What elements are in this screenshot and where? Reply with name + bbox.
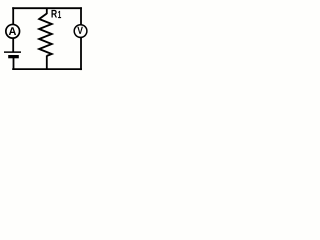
wire bottom (node between battery -, R1 bottom, voltmeter bottom)	[12, 68, 82, 70]
voltmeter V	[74, 25, 87, 38]
ammeter A	[6, 24, 20, 38]
wire top (node between ammeter, R1 top, voltmeter top)	[12, 7, 82, 9]
label R1	[51, 10, 57, 18]
background	[0, 0, 94, 82]
resistor R1 top lead	[46, 8, 48, 15]
wire right bottom segment (voltmeter to bottom wire)	[80, 38, 82, 71]
wire segment battery to bottom wire	[13, 58, 15, 70]
battery positive plate (long)	[4, 51, 21, 53]
resistor R1 bottom lead	[46, 56, 48, 71]
wire segment ammeter to battery	[12, 38, 14, 52]
wire right top segment (top wire to voltmeter)	[80, 7, 82, 24]
resistor R1 zigzag body	[39, 14, 52, 56]
wire left top segment (top wire to ammeter)	[12, 7, 14, 24]
battery negative plate (short thick)	[8, 55, 19, 58]
